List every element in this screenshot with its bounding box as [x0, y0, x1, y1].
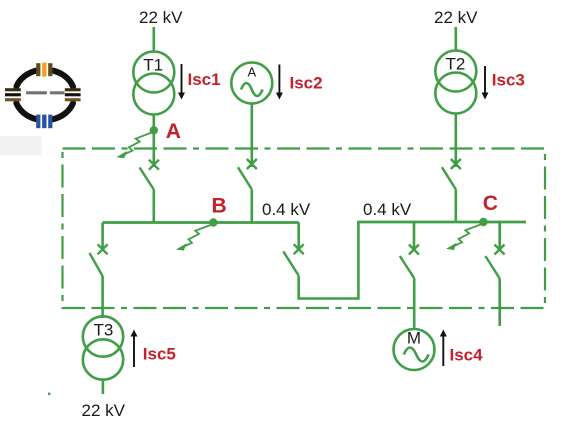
wire 22kV terminal to T2 — [454, 27, 457, 51]
svg-text:0.4 kV: 0.4 kV — [262, 200, 311, 219]
svg-text:Isc5: Isc5 — [143, 345, 176, 364]
current arrow Isc3 — [482, 66, 489, 100]
fault arrow at A — [116, 132, 152, 158]
wire QA to left bus — [153, 190, 156, 224]
transformer T2 — [435, 51, 476, 114]
svg-text:22 kV: 22 kV — [434, 8, 478, 27]
svg-text:A: A — [166, 120, 181, 143]
current arrow Isc4 — [440, 330, 447, 367]
wire QT2 to right bus — [454, 189, 457, 222]
wire T3 to 22kV terminal — [102, 380, 105, 395]
right busbar 0.4 kV — [357, 221, 526, 224]
fault arrow at B — [176, 225, 212, 251]
logo — [5, 63, 81, 129]
svg-text:C: C — [483, 192, 498, 215]
tie disconnector — [283, 244, 303, 276]
wire 22kV terminal to T1 — [153, 27, 156, 52]
wire left bus to disconnector QT3 — [101, 223, 104, 251]
disconnector QT2 — [442, 159, 461, 189]
transformer T1 — [133, 52, 174, 115]
wire QT3 to T3 — [101, 276, 104, 318]
svg-text:Isc4: Isc4 — [450, 346, 484, 365]
disconnector QG — [238, 159, 257, 189]
fault arrow at C — [446, 224, 482, 250]
wire T1 to node A — [153, 115, 156, 131]
tie jumper wire to right bus — [299, 222, 359, 299]
wire right bus to disconnector QS — [498, 222, 501, 250]
transformer T3 — [83, 316, 123, 379]
disconnector QA — [140, 160, 159, 190]
disconnector QM — [400, 245, 419, 279]
motor M — [394, 329, 435, 371]
current arrow Isc5 — [131, 330, 138, 368]
svg-text:22 kV: 22 kV — [139, 8, 183, 27]
LV switchboard enclosure (dash-dot boundary) — [63, 149, 546, 309]
svg-text:T2: T2 — [445, 55, 465, 74]
left busbar 0.4 kV — [103, 221, 299, 224]
wire QM to motor — [413, 278, 416, 329]
svg-text:T3: T3 — [93, 321, 113, 340]
svg-text:Isc1: Isc1 — [188, 70, 221, 89]
svg-text:Isc3: Isc3 — [492, 71, 525, 90]
svg-text:M: M — [407, 329, 421, 348]
svg-text:22 kV: 22 kV — [82, 401, 126, 420]
current arrow Isc1 — [178, 64, 185, 100]
wire generator to disconnector QG — [251, 104, 254, 168]
wire T2 to disconnector QT2 — [454, 114, 457, 168]
generator A — [231, 63, 272, 104]
node A — [150, 126, 158, 134]
wire QG to left bus — [251, 189, 254, 223]
svg-text:Isc2: Isc2 — [290, 74, 323, 93]
svg-text:0.4 kV: 0.4 kV — [363, 200, 412, 219]
current arrow Isc2 — [276, 65, 283, 100]
wire right bus to disconnector QM — [413, 222, 416, 250]
wire node A to disconnector QA — [153, 130, 156, 167]
svg-text:A: A — [247, 65, 256, 80]
node C — [479, 218, 487, 226]
disconnector QS (spare feeder) — [485, 245, 504, 279]
spare feeder stub wire — [498, 279, 501, 327]
disconnector QT3 — [90, 244, 108, 276]
svg-text:T1: T1 — [143, 56, 163, 75]
wire left bus to tie disconnector — [297, 223, 300, 251]
node B — [209, 218, 217, 226]
svg-text:B: B — [212, 194, 227, 217]
